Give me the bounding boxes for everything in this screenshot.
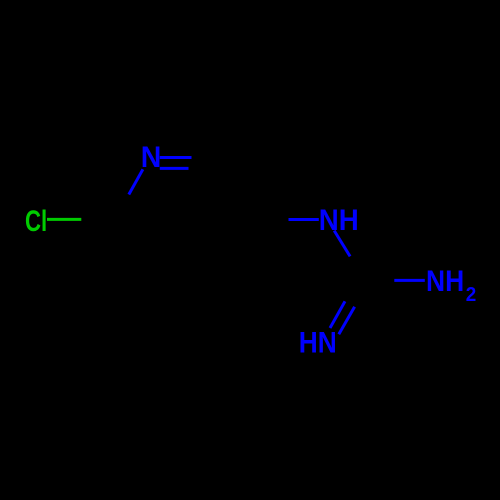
bond Cl-C2 (green half) [47, 218, 81, 221]
bond C8-N10 (blue half) [394, 279, 425, 282]
bond N1-C2 (blue half) [129, 169, 143, 194]
bond C5-N7 (blue half) [289, 218, 319, 221]
bond N1=C6 main line (blue half) [160, 156, 192, 159]
svg-text:NH: NH [319, 204, 359, 237]
svg-text:2: 2 [466, 284, 477, 306]
bond N1=C6 inner double line (blue half) [160, 167, 189, 170]
bond N7-C8 (blue half) [334, 231, 350, 257]
svg-text:N: N [141, 141, 162, 174]
double bond C8=N9 line A (blue half) [330, 301, 345, 328]
svg-text:Cl: Cl [25, 205, 47, 238]
double bond C8=N9 line B (blue half) [339, 307, 355, 335]
svg-text:HN: HN [299, 327, 337, 360]
svg-text:NH: NH [426, 265, 464, 298]
